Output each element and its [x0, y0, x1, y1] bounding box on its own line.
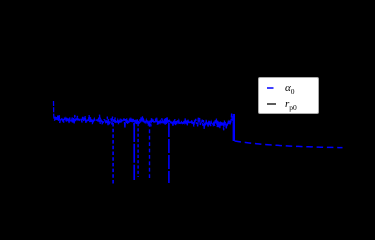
a0 vertical dip at x=169	[168, 123, 170, 183]
a0 vertical dip at x=150	[149, 123, 151, 178]
legend key rp0 (black line)	[267, 103, 276, 105]
legend key a0 (blue dash)	[259, 78, 317, 112]
legend label a0	[285, 83, 295, 94]
a0 vertical dip at x=134	[133, 123, 135, 180]
a0 vertical drop to lower branch	[233, 114, 235, 141]
a0 noisy dashed trace (blue)	[54, 101, 234, 130]
legend label rp0	[285, 99, 297, 110]
legend box	[258, 77, 319, 114]
a0 smooth dashed decay	[235, 141, 343, 148]
a0 vertical dip at x=138	[137, 123, 139, 177]
a0 vertical dip at x=113	[112, 123, 114, 185]
